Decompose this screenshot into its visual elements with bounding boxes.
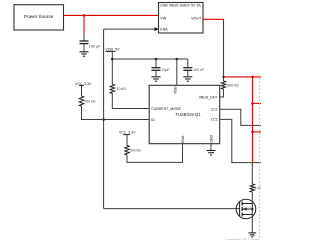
svg-text:CURRENT_MODE: CURRENT_MODE <box>151 107 181 111</box>
ground below C1 <box>80 52 89 56</box>
capacitor C2 10µF <box>152 59 170 77</box>
svg-text:10 kΩ: 10 kΩ <box>117 87 127 91</box>
svg-text:800 kΩ: 800 kΩ <box>227 84 239 88</box>
wire R5 to FET drain <box>251 192 253 204</box>
svg-text:100 µF: 100 µF <box>89 45 101 49</box>
resistor R4 800 kOhm (VBUS to VBUS_DET) <box>221 77 239 89</box>
wire GND pin stub <box>210 144 212 151</box>
power symbol VCC_3.3V (ENA pull-up) <box>119 131 136 146</box>
wire from ENA vertical to FET gate <box>104 208 240 210</box>
wire VBUS stub to connector pin 2 (red) <box>253 131 262 133</box>
svg-text:VDD: VDD <box>174 86 178 94</box>
capacitor C3 100 nF <box>183 59 204 77</box>
power source block PS1 <box>14 5 64 30</box>
svg-text:CC2: CC2 <box>211 118 218 122</box>
wire R3 bottom to ENA pin of IC <box>127 144 183 163</box>
svg-text:ENA: ENA <box>181 135 185 143</box>
wire VDD_5V vertical upper <box>111 51 113 84</box>
resistor R2 200 kOhm (VCC_3.3V to ID) <box>79 96 95 106</box>
svg-text:USB VBUS Switch 5V 3A: USB VBUS Switch 5V 3A <box>160 4 201 8</box>
wire from VIN net down to C1 (red then dark) <box>83 15 85 33</box>
ground below Q1 <box>249 233 257 237</box>
svg-text:ENA: ENA <box>160 27 168 31</box>
ground below C2 <box>152 77 161 81</box>
IC U1 TUSB319-Q1 <box>149 85 220 143</box>
junction VDD_5V <box>111 58 114 61</box>
svg-text:VCC_3.3V: VCC_3.3V <box>119 131 136 135</box>
wire VBUS stub to connector pin 1 (red) <box>253 102 262 104</box>
junction VBUS top <box>251 76 254 79</box>
svg-text:200 kΩ: 200 kΩ <box>84 99 96 103</box>
svg-text:VIN: VIN <box>160 17 166 21</box>
junction VBUS pin 1 <box>251 102 254 105</box>
wire VDD_5V horizontal to caps <box>112 58 188 60</box>
junction VBUS pin 2 <box>251 131 254 134</box>
ground below C3 <box>183 77 192 81</box>
USB VBUS switch block U2 <box>159 3 204 34</box>
transistor Q1 NMOS discharge FET <box>236 199 256 219</box>
junction ENA/ID <box>102 118 105 121</box>
wire VBUS to discharge resistor <box>251 163 253 184</box>
power symbol VCC_3.3V (left) <box>75 82 92 96</box>
svg-text:TUSB319-Q1: TUSB319-Q1 <box>175 112 201 117</box>
svg-text:GND: GND <box>209 135 213 143</box>
net label VDD_5V <box>105 47 120 51</box>
svg-text:200 kΩ: 200 kΩ <box>130 149 142 153</box>
svg-text:ID: ID <box>151 118 155 122</box>
svg-text:100 nF: 100 nF <box>193 68 204 72</box>
wire R1 bottom to CURRENT_MODE pin <box>112 93 149 108</box>
junction at VDD pin drop <box>176 58 179 61</box>
wire ENA from switch to long vertical <box>104 28 159 30</box>
wire CC2 to connector <box>220 119 261 162</box>
wire VIN net (red) from power source to switch <box>64 14 159 16</box>
svg-text:10µF: 10µF <box>162 68 170 72</box>
wire R2 bottom to ID pin <box>82 106 150 119</box>
wire R4 bottom to VBUS_DET pin <box>220 89 224 97</box>
input arrow at ENA pin <box>155 27 159 31</box>
resistor R3 200 kOhm (ENA pull-up) <box>125 146 141 155</box>
ground below IC GND pin <box>207 151 216 155</box>
junction on VIN net at C1 <box>83 14 86 17</box>
connector boundary (dashed) <box>259 77 261 240</box>
junction at C2 <box>155 58 158 61</box>
resistor R5 discharge 1 kOhm <box>250 184 262 192</box>
capacitor C1 100 µF <box>80 41 102 52</box>
wire VBUS vertical (red) on right <box>252 77 254 163</box>
wire FET source to ground <box>251 215 253 233</box>
wire VDD pin drop to IC <box>176 59 178 85</box>
junction VBUS at 800k <box>222 76 224 78</box>
wire CC1 to connector <box>220 109 261 125</box>
svg-text:CC1: CC1 <box>211 108 218 112</box>
long ENA vertical wire down left side <box>103 29 105 209</box>
wire VOUT net (red) to VBUS <box>203 19 261 77</box>
resistor R1 10 kOhm (VDD_5V to CURRENT_MODE) <box>110 84 126 93</box>
svg-text:VDD_5V: VDD_5V <box>105 47 120 51</box>
svg-text:VOUT: VOUT <box>191 17 202 21</box>
svg-text:Power Source: Power Source <box>24 14 54 19</box>
svg-text:VBUS_DET: VBUS_DET <box>199 95 218 99</box>
